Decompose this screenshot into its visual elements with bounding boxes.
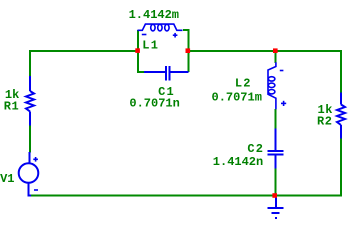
wire bottom horizontal (ground net) [29,195,342,197]
wire right rail lower (R2 to ground net) [340,138,342,196]
inductor L1 minus polarity mark [142,34,147,36]
inductor L2 minus polarity mark [280,70,284,72]
wire right rail upper (top node to R2) [340,51,342,93]
svg-text:1.4142n: 1.4142n [213,155,263,169]
svg-text:L1: L1 [142,38,159,52]
inductor L2 plus polarity mark [281,101,286,106]
voltage source V1 minus polarity mark [34,189,38,191]
wire top horizontal from tank right node to right rail [188,50,342,52]
svg-text:R1: R1 [4,100,19,114]
svg-text:0.7071m: 0.7071m [212,91,262,105]
node junction dot: top of middle branch [273,48,278,53]
svg-text:R2: R2 [317,115,332,129]
wire left rail lower (between R1 and V1) [29,126,31,153]
wire tank left side vertical [138,30,145,72]
resistor R1 [26,76,34,126]
inductor L2 (middle branch) [268,62,276,109]
node junction dot: bottom of middle branch [272,193,277,198]
svg-text:L2: L2 [235,76,252,90]
wire top-left horizontal from V1/R1 rail to tank left node [30,51,138,52]
svg-text:0.7071n: 0.7071n [129,97,179,111]
svg-text:1.4142m: 1.4142m [129,8,179,22]
wire left rail upper (node between top wire and R1) [29,51,31,77]
voltage source V1 plus polarity mark [33,157,38,162]
wire below C2 to ground net [275,168,277,196]
voltage source V1 [19,152,39,196]
wire middle branch top stub (top node to L2) [275,51,277,63]
node junction dot: tank left [135,48,140,53]
inductor L1 plus polarity mark [173,33,178,38]
svg-text:C2: C2 [247,142,264,156]
capacitor C2 (middle branch) [268,129,284,169]
capacitor C1 (bottom of tank) [144,66,189,81]
wire tank right side vertical [183,30,189,72]
wire between L2 and C2 [275,109,277,129]
ground [268,196,284,218]
node junction dot: tank right [186,48,191,53]
inductor L1 (top of tank) [138,24,183,31]
svg-text:V1: V1 [0,172,14,186]
resistor R2 [337,92,345,138]
